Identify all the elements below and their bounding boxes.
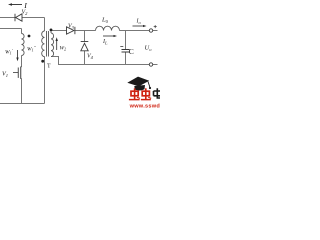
watermark graduation cap <box>127 77 151 91</box>
mosfet V1 <box>13 67 22 79</box>
arrow Io right <box>133 25 147 27</box>
wire primary winding bottom to mosfet drain <box>21 56 23 68</box>
transformer core <box>47 31 49 57</box>
polarity dot W1'' <box>41 60 44 63</box>
arrow input current I <box>8 3 22 5</box>
wire V4 anode down to bottom rail <box>84 51 86 65</box>
svg-text:I: I <box>23 1 27 10</box>
wire past bottom terminal <box>153 64 158 66</box>
wire past top terminal <box>153 30 158 32</box>
svg-text:C: C <box>129 47 134 56</box>
output terminal bottom <box>149 63 152 66</box>
polarity dot W1' <box>28 35 31 38</box>
arrow IL right <box>103 35 117 37</box>
transformer secondary winding W2 <box>51 33 54 57</box>
output terminal top <box>149 29 152 32</box>
arrow W1' current down <box>16 50 18 61</box>
wire diode V3 cathode to inductor <box>75 30 96 32</box>
plus sign output <box>154 25 157 28</box>
wire secondary winding top to diode V3 <box>51 31 67 34</box>
wire junction down to V4 cathode <box>84 31 86 42</box>
wire capacitor bottom lead <box>125 52 127 65</box>
transformer demag winding W1'' <box>42 31 45 57</box>
diode V4 <box>81 42 89 51</box>
wire inductor to output terminal <box>120 30 150 32</box>
wire capacitor top lead <box>125 31 127 50</box>
diode V3 <box>67 27 75 34</box>
svg-text:V3: V3 <box>68 24 75 31</box>
svg-text:T: T <box>47 64 51 70</box>
svg-text:V4: V4 <box>87 54 94 61</box>
wire secondary bottom rail <box>51 57 149 65</box>
svg-text:V2: V2 <box>22 10 29 17</box>
svg-text:W2: W2 <box>60 46 67 52</box>
watermark char chong 1 <box>129 88 140 99</box>
wire x=44.5 down to demag winding top <box>44 18 46 32</box>
polarity dot W2 <box>50 29 53 32</box>
inductor L0 <box>96 26 120 30</box>
capacitor C plates <box>122 50 130 53</box>
svg-text:Io: Io <box>136 19 142 26</box>
wire bottom rail primary <box>0 103 45 105</box>
wire x=21.5 down to primary winding top <box>21 29 23 34</box>
diode V2 <box>15 14 22 22</box>
wire second input rail <box>0 28 22 30</box>
watermark char chong 2 <box>141 88 151 99</box>
wire demag winding bottom down to rail <box>44 57 46 104</box>
watermark char dian cut off <box>154 88 161 98</box>
capacitor plus mark <box>120 46 123 48</box>
wire top input rail <box>0 17 45 19</box>
transformer primary winding W1' <box>22 34 25 56</box>
svg-text:www.sswdz: www.sswdz <box>129 103 160 109</box>
wire mosfet source down <box>21 79 23 104</box>
svg-text:IL: IL <box>102 39 108 46</box>
arrow W2 up <box>56 37 58 50</box>
